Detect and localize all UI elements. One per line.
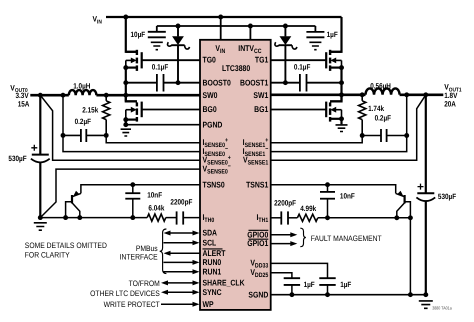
- svg-text:TSNS1: TSNS1: [246, 179, 269, 189]
- wire ISENSE0+: [106, 135, 200, 142]
- node Q6 base junction: [408, 215, 413, 220]
- transistor Q1 top NMOS ch0: [123, 17, 200, 71]
- node note label: [25, 241, 107, 259]
- svg-text:SDA: SDA: [203, 228, 218, 238]
- node TSNS1 junction 10nF: [325, 182, 330, 187]
- node Q5 base junction: [63, 215, 68, 220]
- capacitor C-BOOST1 0.1uF: [294, 63, 342, 92]
- svg-text:0.1µF: 0.1µF: [294, 63, 311, 72]
- svg-text:SYNC: SYNC: [203, 287, 222, 297]
- wire RUN1 arrow: [164, 269, 200, 274]
- wire SW0: [96, 94, 125, 97]
- svg-text:1µF: 1µF: [304, 280, 315, 289]
- wire SW1: [342, 94, 366, 97]
- capacitor C0 0.2uF DCR sense: [63, 117, 106, 142]
- svg-text:SGND: SGND: [248, 289, 268, 299]
- svg-text:2200pF: 2200pF: [274, 199, 296, 208]
- node Q5 collector junction: [77, 215, 82, 220]
- node D1-BOOST0 junction: [176, 80, 181, 85]
- node Q6 collector junction: [394, 215, 399, 220]
- node 10nF-GND junction: [130, 215, 135, 220]
- svg-text:SW1: SW1: [253, 90, 268, 100]
- node SGND junction GND-bus: [408, 292, 413, 297]
- U1 pin labels: [203, 43, 269, 309]
- node INTVCC junction D2: [283, 24, 288, 29]
- svg-text:SW0: SW0: [203, 90, 218, 100]
- svg-text:1.8V: 1.8V: [444, 91, 458, 100]
- node R1-C1 junction: [360, 133, 365, 138]
- wire ISENSE1-: [271, 95, 407, 152]
- wire SGND: [271, 294, 426, 296]
- resistor R-ITH1 4.99k: [297, 204, 317, 221]
- diode D2 BOOST1 schottky: [275, 26, 297, 83]
- svg-text:FOR CLARITY: FOR CLARITY: [25, 250, 71, 259]
- svg-text:4.99k: 4.99k: [300, 204, 317, 213]
- svg-text:0.2µF: 0.2µF: [75, 117, 92, 126]
- node BOOST1 cap to SW junction: [339, 80, 344, 85]
- node INTVCC junction D1: [176, 24, 181, 29]
- svg-text:SCL: SCL: [203, 237, 217, 247]
- wire SDA arrow: [164, 231, 200, 236]
- wire VIN pin stub: [220, 17, 222, 40]
- node VOUT0 label: [10, 83, 29, 108]
- resistor R1 1.74k: [359, 95, 385, 136]
- svg-text:1µF: 1µF: [340, 280, 351, 289]
- wire VDD33: [271, 263, 328, 278]
- svg-text:10nF: 10nF: [147, 191, 162, 200]
- svg-text:1µF: 1µF: [327, 30, 338, 39]
- node SW0 junction node-line: [123, 93, 128, 98]
- node VOUT1 label: [444, 83, 461, 109]
- wire VSENSE0+: [40, 95, 200, 160]
- wire RUN0 arrow: [164, 260, 200, 265]
- svg-text:INTERFACE: INTERFACE: [120, 253, 158, 262]
- wire GND bus left: [40, 217, 147, 219]
- wire BOOST0: [164, 82, 201, 84]
- transistor Q4 bottom NMOS ch1: [271, 95, 344, 122]
- wire SHARE_CLK arrow: [161, 280, 200, 285]
- wire Q4 source stub: [340, 119, 342, 125]
- node INTVCC junction pin: [248, 24, 253, 29]
- node VIN rail junction to Q1: [123, 15, 128, 20]
- node fault brace: [300, 228, 306, 247]
- svg-text:2200pF: 2200pF: [170, 198, 192, 207]
- node C1 right junction: [404, 133, 409, 138]
- transistor Q3 top NMOS ch1: [271, 17, 344, 71]
- wire GND bus right drop: [409, 218, 411, 295]
- svg-text:1.0µH: 1.0µH: [73, 81, 91, 90]
- svg-text:TG1: TG1: [255, 54, 269, 64]
- wire SW0 to IC: [126, 94, 200, 97]
- wire INTVCC line: [157, 25, 316, 27]
- svg-text:OTHER LTC DEVICES: OTHER LTC DEVICES: [90, 289, 160, 298]
- wire BOOST1: [271, 82, 300, 84]
- inductor L0 1.0uH: [69, 81, 97, 95]
- node C0 left junction: [61, 133, 66, 138]
- wire VDD25: [271, 273, 292, 279]
- svg-text:20A: 20A: [444, 100, 456, 109]
- wire Q2 source to PGND: [125, 120, 127, 125]
- ground output GND left: [34, 223, 47, 230]
- node R0-C0 junction: [104, 133, 109, 138]
- wire ALERT arrow: [164, 251, 200, 256]
- svg-text:6.04k: 6.04k: [148, 204, 165, 213]
- svg-text:530µF: 530µF: [438, 192, 456, 201]
- svg-text:2.15k: 2.15k: [82, 106, 99, 115]
- wire PGND: [126, 124, 200, 126]
- wire SYNC arrow: [161, 290, 200, 295]
- capacitor 1uF INTVCC bypass: [306, 26, 338, 50]
- svg-text:TSNS0: TSNS0: [203, 179, 226, 189]
- ground Q2 source: [121, 129, 131, 136]
- transistor Q5 temp sense ch0: [66, 191, 81, 218]
- capacitor C-ITH1 2200pF: [271, 199, 298, 225]
- svg-text:3880 TA01a: 3880 TA01a: [432, 305, 452, 310]
- svg-text:PGND: PGND: [203, 119, 223, 129]
- svg-text:10nF: 10nF: [340, 192, 355, 201]
- wire INTVCC pin stub: [249, 26, 251, 40]
- node TSNS0 junction 10nF: [130, 182, 135, 187]
- svg-text:0.56µH: 0.56µH: [370, 81, 391, 90]
- svg-text:0.2µF: 0.2µF: [375, 114, 392, 123]
- wire Q1 source to SW node: [125, 68, 127, 102]
- svg-text:WRITE PROTECT: WRITE PROTECT: [104, 300, 160, 309]
- svg-text:FAULT MANAGEMENT: FAULT MANAGEMENT: [311, 234, 382, 243]
- svg-text:RUN1: RUN1: [203, 266, 222, 276]
- ground Q4 source: [336, 125, 348, 132]
- node TO/FROM label: [90, 279, 160, 298]
- node VOUT1 junction C-sense: [404, 92, 409, 97]
- node VOUT0 junction sense: [61, 93, 66, 98]
- wire ISENSE1+: [271, 136, 363, 143]
- svg-text:TO/FROM: TO/FROM: [129, 279, 160, 288]
- svg-text:TG0: TG0: [203, 54, 217, 64]
- node BOOST0 cap to SW junction: [123, 80, 128, 85]
- wire VIN rail: [106, 16, 342, 18]
- node SW1 junction node-line: [339, 92, 344, 97]
- svg-text:BOOST1: BOOST1: [240, 77, 269, 87]
- node SGND junction C-VDD33: [325, 292, 330, 297]
- transistor Q2 bottom NMOS ch0: [123, 95, 200, 122]
- wire GPIO1 arrow: [271, 241, 298, 246]
- svg-text:BG0: BG0: [203, 104, 217, 114]
- capacitor C1 0.2uF DCR sense: [362, 114, 407, 142]
- wire SCL arrow: [164, 240, 200, 245]
- node SW0 junction 2.15k: [104, 93, 109, 98]
- capacitor C-OUT1 530uF: [416, 95, 456, 295]
- inductor L1 0.56uH: [366, 81, 400, 94]
- wire WP arrow: [161, 302, 200, 307]
- wire GPIO0 arrow: [271, 232, 298, 237]
- wire VOUT0 line: [30, 94, 69, 97]
- svg-text:LTC3880: LTC3880: [222, 63, 251, 73]
- svg-text:BOOST0: BOOST0: [203, 77, 232, 87]
- resistor R0 2.15k: [82, 95, 109, 135]
- svg-text:SOME DETAILS OMITTED: SOME DETAILS OMITTED: [25, 241, 107, 250]
- capacitor C-VDD25 1uF: [284, 278, 315, 295]
- svg-text:1.74k: 1.74k: [368, 104, 385, 113]
- wire VSENSE0-: [40, 169, 200, 218]
- wire TSNS0: [81, 185, 200, 194]
- ground main SGND: [419, 301, 433, 308]
- capacitor C-ITH0 2200pF: [166, 198, 200, 225]
- node PMBus label: [120, 244, 158, 262]
- svg-text:15A: 15A: [18, 100, 30, 109]
- wire Q3 source to SW node: [340, 68, 342, 102]
- node SW1 junction 1.74k: [360, 92, 365, 97]
- node PMBus brace: [160, 229, 167, 274]
- capacitor 10uF INTVCC bypass: [131, 26, 166, 50]
- svg-text:0.1µF: 0.1µF: [152, 63, 169, 72]
- capacitor C-OUT0 530uF: [8, 95, 49, 217]
- svg-text:10µF: 10µF: [131, 30, 146, 39]
- capacitor C-TSNS1 10nF: [320, 185, 355, 218]
- capacitor C-TSNS0 10nF: [125, 185, 162, 218]
- transistor Q6 temp sense ch1: [396, 191, 411, 218]
- svg-text:530µF: 530µF: [8, 154, 26, 163]
- svg-text:BG1: BG1: [254, 104, 268, 114]
- wire VSENSE1: [271, 95, 426, 161]
- node WRITE PROTECT label: [104, 300, 160, 309]
- node VOUT1 junction 530uF: [423, 92, 428, 97]
- node VOUT0 junction 530uF: [38, 93, 43, 98]
- capacitor C-VDD33 1uF: [319, 278, 351, 295]
- IC U1 LTC3880 controller body: [200, 40, 271, 310]
- node VIN label: [93, 14, 102, 25]
- node figure label: [432, 305, 452, 310]
- wire ISENSE0-: [63, 95, 200, 151]
- node SGND junction C-VDD25: [289, 292, 294, 297]
- wire GND bus right: [318, 217, 411, 219]
- svg-text:PMBus: PMBus: [136, 244, 158, 253]
- node FAULT MANAGEMENT label: [311, 234, 382, 243]
- node 10nF1-GND junction: [325, 215, 330, 220]
- resistor R-ITH0 6.04k: [147, 204, 166, 222]
- wire SW1 to IC: [271, 94, 342, 97]
- node SGND junction 530uF: [423, 292, 428, 297]
- diode D1 BOOST0 schottky: [168, 26, 190, 83]
- node VIN rail junction to VIN pin: [218, 15, 223, 20]
- node GND bus left end: [38, 215, 43, 220]
- wire VOUT1 line: [400, 94, 444, 97]
- wire TSNS1: [271, 185, 396, 194]
- node PGND junction: [123, 122, 128, 127]
- svg-text:3.3V: 3.3V: [15, 91, 29, 100]
- capacitor C-BOOST0 0.1uF: [126, 63, 169, 92]
- svg-text:WP: WP: [203, 299, 214, 309]
- node D2-BOOST1 junction: [283, 80, 288, 85]
